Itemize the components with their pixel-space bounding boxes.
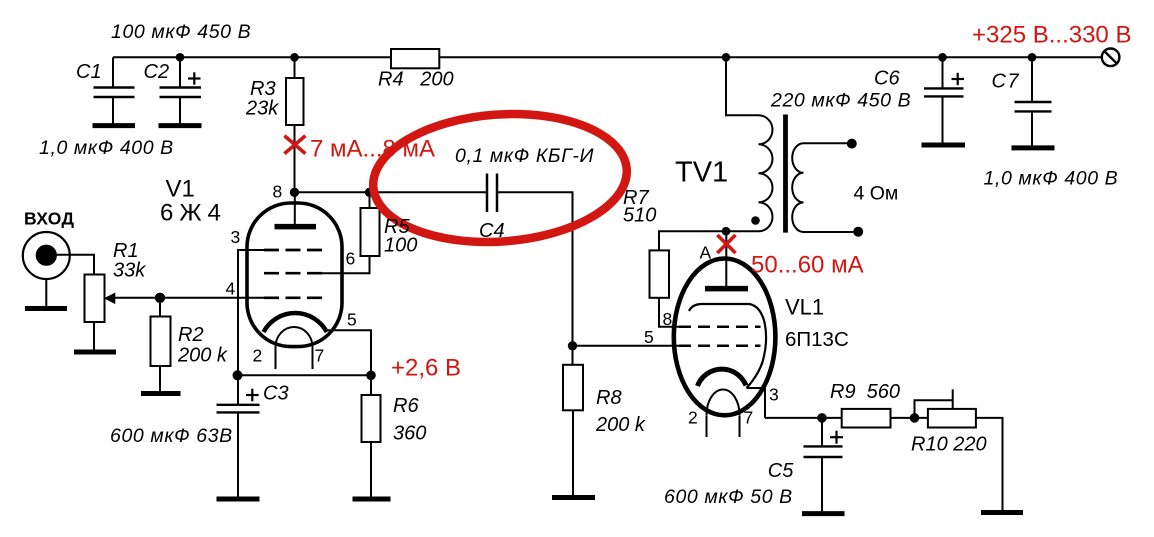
R1 wiper arrow <box>105 293 115 303</box>
wire TV1 secondary top lead <box>804 142 852 144</box>
svg-text:C2: C2 <box>144 61 170 83</box>
wire TV1 primary bottom lead <box>726 230 759 232</box>
wire R8 bottom <box>572 410 574 497</box>
VL1 grid row pin 8 <box>679 326 761 329</box>
wire V1 pin 4 input <box>113 297 265 299</box>
V1 cathode <box>264 313 327 332</box>
wire C2 top stem <box>179 57 181 86</box>
wire C3 top stem <box>237 375 239 404</box>
svg-text:7 мА...8 мА: 7 мА...8 мА <box>310 136 435 163</box>
V1 grid row pin 3 <box>264 249 322 252</box>
wire R6 top stem <box>370 375 372 395</box>
svg-text:C7: C7 <box>992 71 1021 93</box>
node TV1 rail <box>722 53 731 62</box>
wire VL1 pin 3 <box>747 388 766 418</box>
svg-text:6П13С: 6П13С <box>785 328 849 351</box>
svg-text:360: 360 <box>393 423 426 445</box>
ground R2 <box>141 391 181 396</box>
svg-text:ВХОД: ВХОД <box>24 209 74 229</box>
red ellipse highlight around C4 <box>369 106 631 250</box>
ground R8 <box>552 495 595 500</box>
VL1 cathode <box>698 369 747 386</box>
svg-text:5: 5 <box>644 327 654 347</box>
capacitor C4 <box>487 174 497 213</box>
svg-text:600 мкФ 50 В: 600 мкФ 50 В <box>664 486 793 508</box>
svg-text:VL1: VL1 <box>785 295 824 320</box>
svg-text:7: 7 <box>744 408 754 428</box>
wire R6 bottom <box>370 442 372 499</box>
ground R1 <box>74 350 116 355</box>
wire C4 to R8 node <box>498 192 573 345</box>
wire R5 bottom to V1 pin 6 <box>322 256 370 273</box>
V1 anode plate <box>275 224 317 230</box>
resistor R8 <box>563 365 583 411</box>
ground R10 <box>981 510 1023 515</box>
ground R6 <box>353 497 391 502</box>
red annotations <box>284 136 735 253</box>
V1 pin 2 lead <box>275 347 277 369</box>
ground C1 <box>93 123 136 128</box>
svg-text:R10 220: R10 220 <box>911 434 987 456</box>
V1 pin 7 lead <box>312 347 314 369</box>
svg-text:600 мкФ 63В: 600 мкФ 63В <box>110 425 233 447</box>
resistor R2 <box>151 317 171 367</box>
svg-text:3: 3 <box>231 227 241 247</box>
wire V1 pin 5 <box>326 330 371 375</box>
node R10 wiper <box>910 413 920 423</box>
ground C2 <box>159 123 202 128</box>
wire V1 pin 3 down to cathode node <box>238 250 265 375</box>
svg-text:6Ж4: 6Ж4 <box>160 200 227 227</box>
wire rail to TV1 primary top <box>726 57 759 115</box>
resistor R7 <box>650 250 670 297</box>
svg-text:1,0 мкФ 400 В: 1,0 мкФ 400 В <box>984 168 1119 190</box>
node C7 rail <box>1028 53 1037 62</box>
node R5 top <box>365 188 374 197</box>
svg-text:6: 6 <box>346 249 356 269</box>
svg-text:C1: C1 <box>76 61 102 83</box>
node R6 cathode <box>366 371 376 381</box>
svg-text:+2,6 В: +2,6 В <box>391 355 461 382</box>
svg-text:510: 510 <box>623 205 656 227</box>
wire R2 bottom <box>159 366 161 391</box>
wire R9 to R10 <box>891 417 928 419</box>
svg-text:2: 2 <box>253 346 263 366</box>
wire R1 bottom <box>93 322 95 350</box>
red X at node A current mark <box>717 235 735 253</box>
V1 heater <box>276 327 313 347</box>
svg-text:200 k: 200 k <box>595 414 646 436</box>
node C6 rail <box>938 53 947 62</box>
svg-text:5: 5 <box>347 310 357 330</box>
wire jack to R1 <box>55 255 94 275</box>
R10 wiper tap <box>952 389 954 409</box>
resistor R9 <box>842 409 891 428</box>
capacitor C6 <box>924 73 964 143</box>
VL1 pin 7 lead <box>739 415 741 437</box>
VL1 anode plate <box>705 286 748 292</box>
svg-text:V1: V1 <box>166 176 195 203</box>
svg-text:3: 3 <box>769 385 779 405</box>
node R3 rail <box>290 53 299 62</box>
wire top supply rail <box>113 56 1102 58</box>
transformer TV1 primary winding <box>759 115 773 231</box>
svg-text:R6: R6 <box>393 395 419 417</box>
tube VL1 envelope <box>674 259 776 416</box>
R10 wiper arm <box>915 400 953 418</box>
connector input jack <box>23 232 70 279</box>
svg-text:33k: 33k <box>113 260 146 282</box>
svg-text:C5: C5 <box>768 460 794 482</box>
capacitor C2 <box>160 72 202 125</box>
V1 anode wire <box>294 192 296 224</box>
capacitor C5 <box>804 431 844 512</box>
ground jack <box>25 306 67 311</box>
wire C7 top stem <box>1031 57 1033 101</box>
node R2 grid <box>155 293 165 303</box>
wire R8 top stem <box>572 346 574 365</box>
svg-text:R9 560: R9 560 <box>830 381 900 403</box>
red X at R3 current mark <box>284 136 305 154</box>
wire R7 top to node A <box>659 231 726 250</box>
svg-text:A: A <box>700 243 712 263</box>
VL1 anode wire <box>725 231 727 286</box>
V1 grid row pin 4 <box>264 296 322 299</box>
TV1 primary phase dot <box>751 216 760 225</box>
ground C7 <box>1012 145 1055 150</box>
transformer TV1 secondary winding <box>792 143 803 232</box>
svg-text:4: 4 <box>226 279 236 299</box>
wire TV1 secondary bottom lead <box>804 231 859 233</box>
resistor R10 potentiometer <box>928 409 976 428</box>
transformer TV1 core <box>783 115 788 233</box>
resistor R3 <box>286 78 304 125</box>
resistor R5 <box>361 208 380 256</box>
resistor R1 potentiometer <box>85 275 105 323</box>
node 8 V1 anode <box>290 188 299 197</box>
V1 grid row pin 6 <box>264 272 322 275</box>
VL1 grid row pin 5 <box>679 345 761 348</box>
node A TV1 primary bottom <box>722 227 731 236</box>
svg-text:0,1 мкФ КБГ-И: 0,1 мкФ КБГ-И <box>455 145 594 167</box>
capacitor C1 <box>94 88 135 126</box>
VL1 beam plate <box>689 304 766 388</box>
node R8 top <box>568 341 577 350</box>
node C3 cathode <box>233 370 243 380</box>
svg-text:200 k: 200 k <box>177 345 228 367</box>
svg-text:50...60 мА: 50...60 мА <box>751 252 864 279</box>
svg-text:7: 7 <box>315 346 325 366</box>
svg-text:+325 В...330 В: +325 В...330 В <box>972 22 1131 49</box>
svg-text:8: 8 <box>273 182 283 202</box>
wire jack ground stem <box>45 279 47 306</box>
ground C6 <box>922 143 966 148</box>
node C5 <box>817 413 827 423</box>
wire R10 right to ground <box>976 418 1003 510</box>
tube V1 envelope <box>247 203 342 347</box>
ground C5 <box>802 511 845 516</box>
svg-text:1,0 мкФ 400 В: 1,0 мкФ 400 В <box>39 137 174 159</box>
svg-text:R2: R2 <box>178 324 204 346</box>
wire node 8 to C4 <box>295 191 487 193</box>
VL1 pin 2 lead <box>706 415 708 437</box>
junction node dots <box>155 53 1036 423</box>
TV1 secondary bottom terminal <box>853 227 863 237</box>
svg-text:R8: R8 <box>596 387 622 409</box>
wire R2 top stem <box>159 298 161 317</box>
node C2 rail <box>176 53 185 62</box>
svg-text:2: 2 <box>688 408 698 428</box>
ground C3 <box>217 497 260 502</box>
wire VL1 pin 5 <box>573 345 680 347</box>
svg-text:100: 100 <box>384 235 417 257</box>
wire R7 bottom to VL1 pin 8 <box>659 298 679 327</box>
wire R3 top stem <box>294 57 296 78</box>
svg-text:23k: 23k <box>245 98 279 120</box>
wire R5 top stem <box>369 192 371 208</box>
VL1 heater <box>707 390 740 416</box>
svg-text:C3: C3 <box>263 383 289 405</box>
svg-text:R4 200: R4 200 <box>378 69 454 91</box>
wire R3 bottom to node 8 <box>294 125 296 192</box>
wire C1 top stem <box>112 57 114 86</box>
capacitor C7 <box>1015 102 1052 146</box>
svg-text:TV1: TV1 <box>675 157 728 189</box>
svg-text:220 мкФ 450 В: 220 мкФ 450 В <box>770 90 911 112</box>
capacitor C3 <box>217 389 260 499</box>
terminal +325V output <box>1102 49 1120 67</box>
wire pin 3 to R9 <box>765 417 842 419</box>
wire cathode node C3 to R6 <box>238 374 371 376</box>
resistor R4 <box>391 49 439 68</box>
svg-text:8: 8 <box>663 309 673 329</box>
svg-text:C6: C6 <box>874 68 900 90</box>
TV1 secondary top terminal <box>847 139 857 149</box>
wire C5 top stem <box>821 418 823 446</box>
svg-text:4 Ом: 4 Ом <box>854 183 899 205</box>
wire C6 top stem <box>942 57 944 88</box>
svg-text:C4: C4 <box>479 220 505 242</box>
svg-text:100 мкФ 450 В: 100 мкФ 450 В <box>111 21 251 43</box>
resistor R6 <box>362 395 381 442</box>
